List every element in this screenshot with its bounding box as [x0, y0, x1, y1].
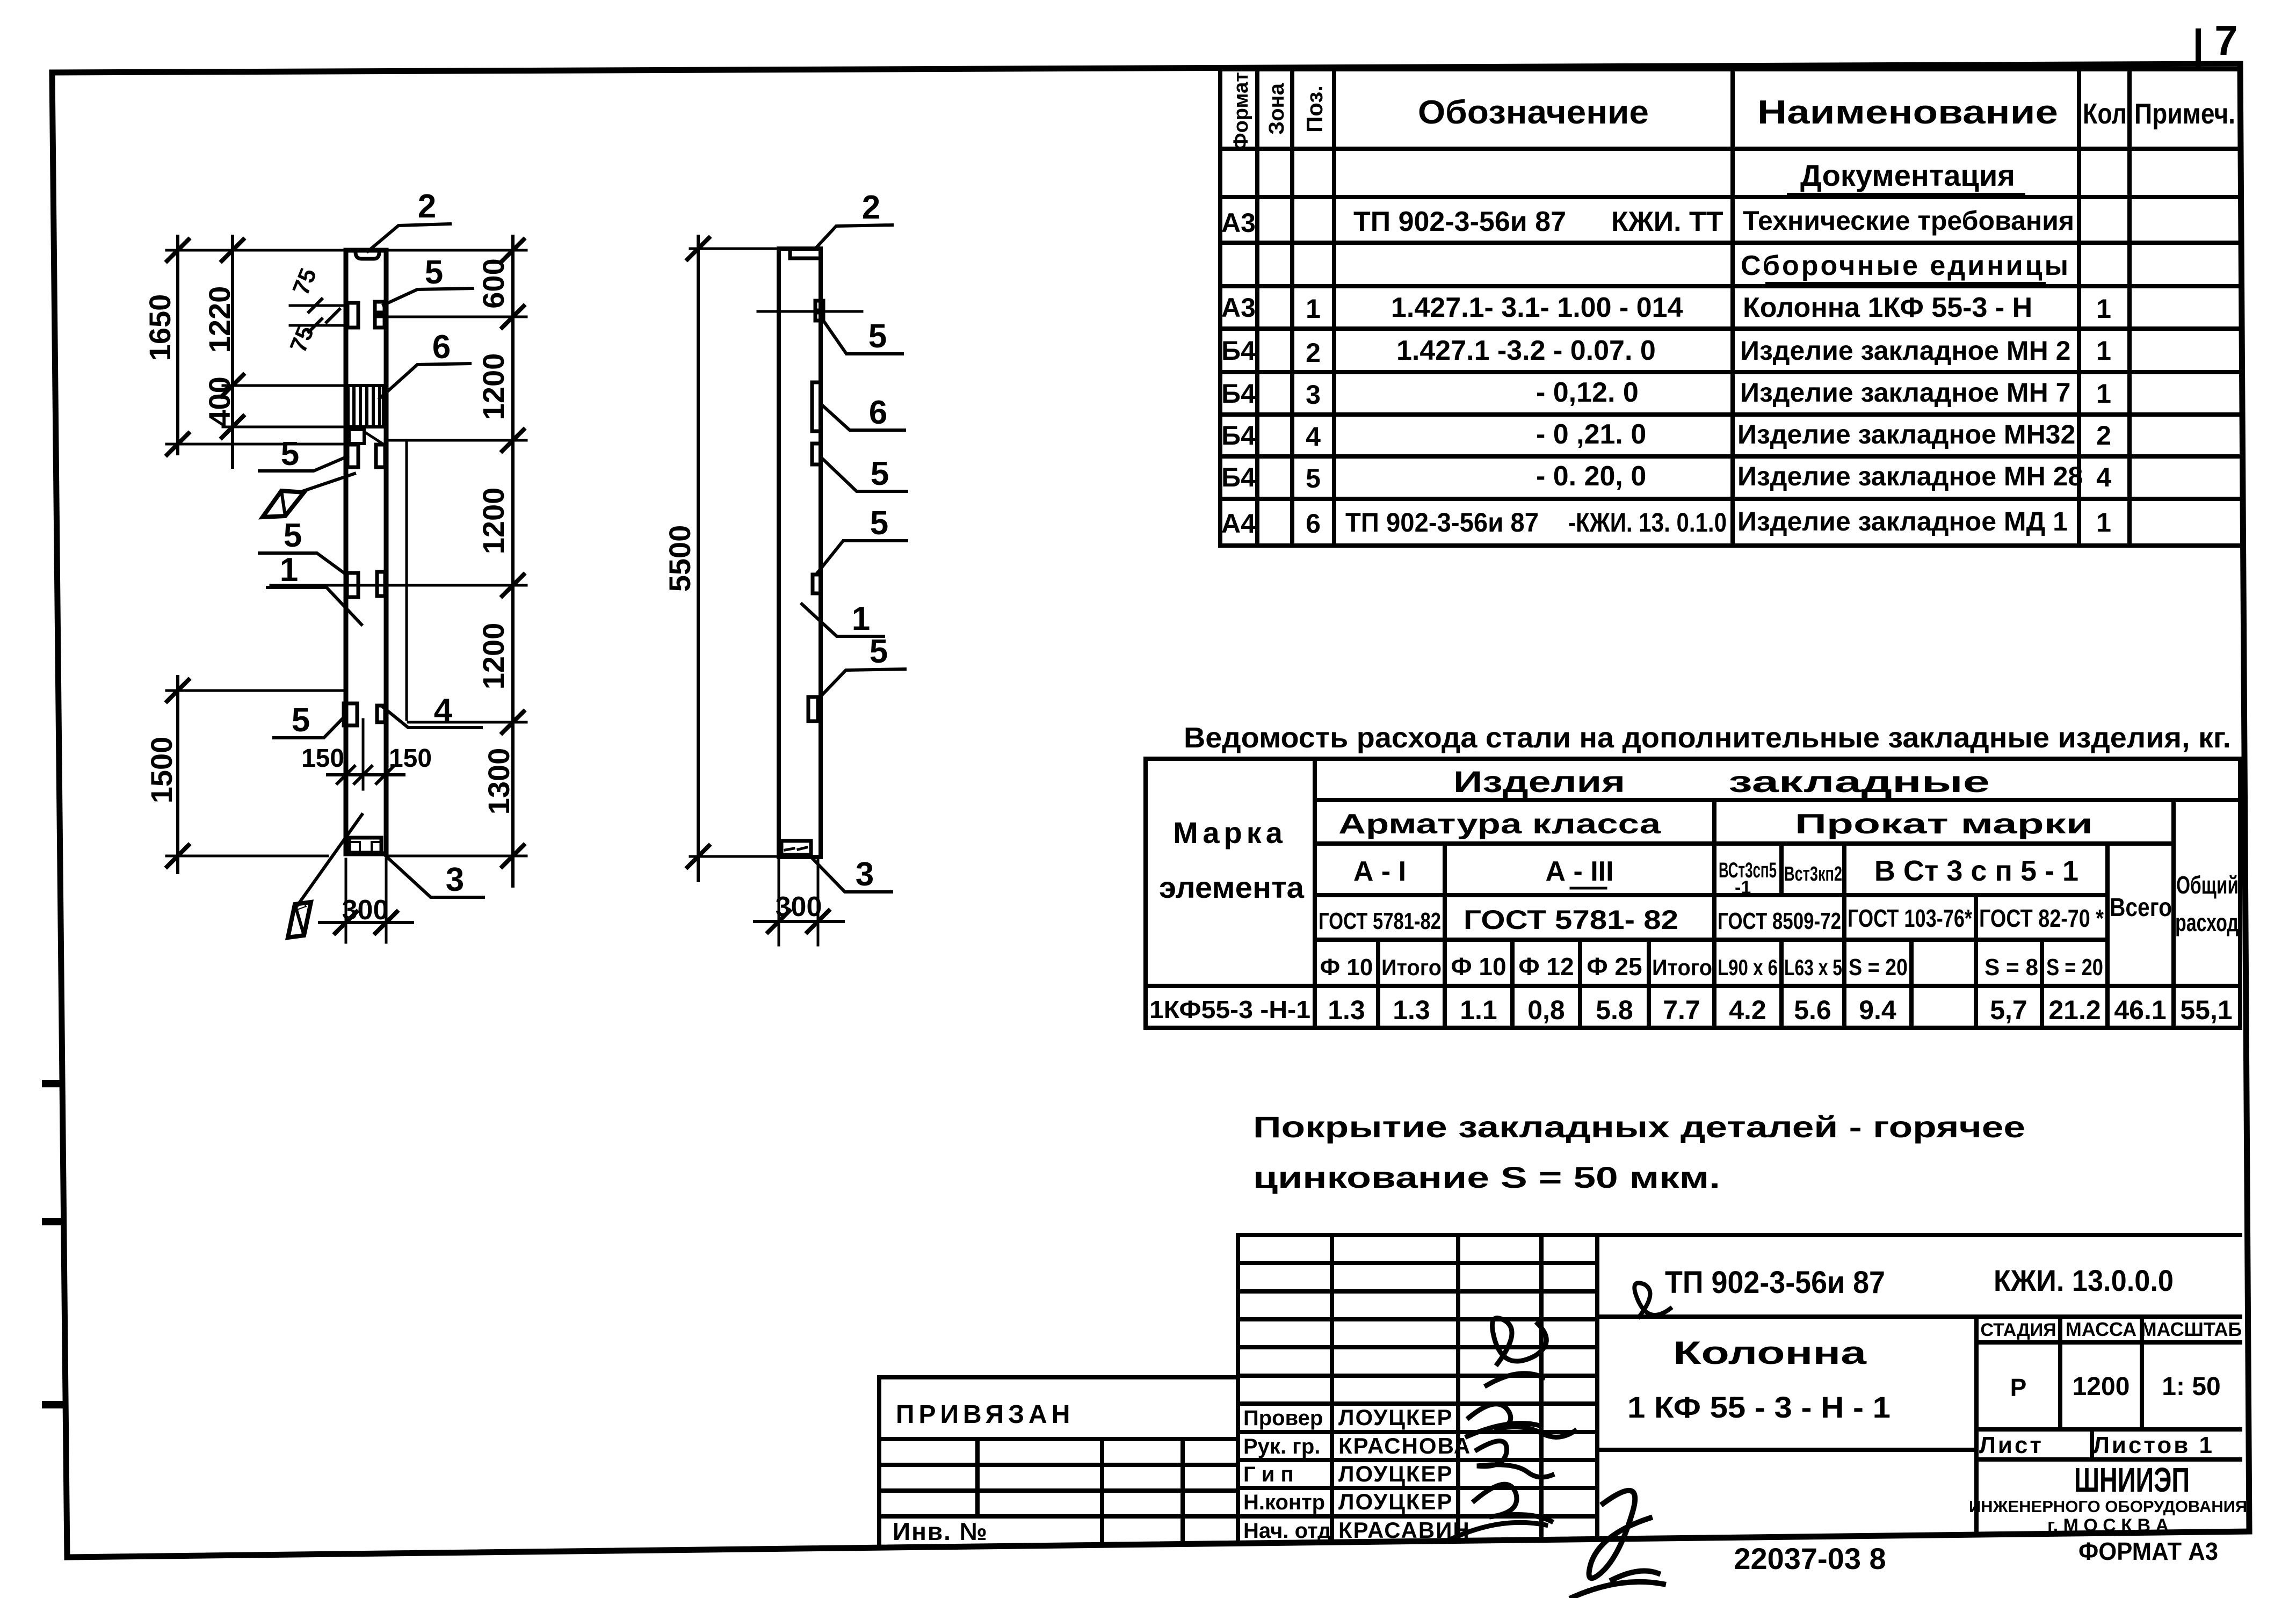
svg-text:СТАДИЯ: СТАДИЯ [1980, 1320, 2056, 1340]
svg-text:5: 5 [292, 702, 310, 739]
svg-text:Вст3кп2: Вст3кп2 [1784, 863, 1842, 885]
view1 leader item 5 (pair3) [259, 553, 347, 575]
svg-text:7: 7 [2214, 17, 2237, 64]
view1 view marker A with arrow [296, 815, 362, 907]
svg-text:5: 5 [868, 318, 887, 355]
svg-text:ЛОУЦКЕР: ЛОУЦКЕР [1338, 1489, 1453, 1514]
svg-text:Ф 10: Ф 10 [1320, 954, 1373, 980]
svg-text:Ф 12: Ф 12 [1518, 953, 1574, 980]
svg-text:S = 20: S = 20 [2046, 954, 2103, 980]
specification table grid [1220, 67, 2240, 71]
svg-text:1: 50: 1: 50 [2162, 1372, 2220, 1401]
svg-text:5500: 5500 [663, 525, 697, 592]
svg-text:Г и п: Г и п [1243, 1463, 1294, 1486]
view1 leader item 4 [405, 443, 408, 720]
svg-text:0,8: 0,8 [1527, 995, 1565, 1025]
svg-text:- 0,12. 0: - 0,12. 0 [1536, 377, 1639, 408]
page frame top border [52, 64, 2240, 72]
svg-text:ТП 902-3-56и 87: ТП 902-3-56и 87 [1345, 507, 1539, 537]
view1 embed pair 1 (item 5) [347, 303, 358, 328]
svg-text:Ф 25: Ф 25 [1587, 953, 1642, 980]
svg-text:Изделия: Изделия [1453, 765, 1625, 798]
view2 embed 4 (item 5) [808, 697, 818, 721]
svg-text:S = 8: S = 8 [1984, 954, 2038, 980]
title block middle signature grid [1238, 1233, 1597, 1237]
svg-text:1.427.1 -3.2 - 0.07. 0: 1.427.1 -3.2 - 0.07. 0 [1396, 335, 1656, 366]
svg-text:55,1: 55,1 [2180, 995, 2232, 1025]
svg-text:элемента: элемента [1159, 870, 1305, 904]
svg-text:Н.контр: Н.контр [1243, 1491, 1325, 1514]
svg-text:7.7: 7.7 [1663, 995, 1700, 1025]
svg-text:1: 1 [2096, 336, 2111, 366]
svg-text:В Ст 3 с п 5 - 1: В Ст 3 с п 5 - 1 [1874, 855, 2078, 887]
svg-text:Р: Р [2010, 1374, 2027, 1401]
svg-text:КРАСНОВА: КРАСНОВА [1338, 1433, 1471, 1458]
svg-text:Б4: Б4 [1221, 336, 1256, 366]
svg-text:21.2: 21.2 [2048, 995, 2101, 1025]
svg-text:Поз.: Поз. [1302, 85, 1327, 133]
view1 leader item 3 [385, 855, 483, 897]
svg-text:75: 75 [288, 265, 322, 299]
svg-text:4: 4 [1306, 422, 1321, 452]
view1 leader item 6 [380, 364, 470, 398]
view2 leader item 3 [811, 857, 892, 892]
svg-text:Нач. отд: Нач. отд [1243, 1519, 1331, 1543]
svg-text:Изделие закладное МД 1: Изделие закладное МД 1 [1737, 506, 2068, 536]
svg-text:МАСШТАБ: МАСШТАБ [2141, 1318, 2242, 1340]
view2 leader item 6 [821, 404, 904, 430]
view1 embed pair 3 (item 5) [347, 573, 358, 597]
view1 hatched zone item 6 [348, 386, 383, 427]
view1 small plate below hatch (item 4) [349, 430, 364, 444]
svg-text:Кол: Кол [2083, 98, 2127, 130]
svg-text:46.1: 46.1 [2114, 995, 2166, 1025]
svg-text:Б4: Б4 [1221, 462, 1256, 492]
svg-text:КЖИ. 13.0.0.0: КЖИ. 13.0.0.0 [1994, 1263, 2174, 1297]
svg-text:5: 5 [284, 517, 302, 554]
view1 dim chain 1500 [176, 677, 179, 873]
svg-text:Марка: Марка [1173, 816, 1287, 849]
column view 1: body outline [346, 250, 386, 854]
view1 dim chain 1650 [176, 236, 179, 454]
svg-text:А3: А3 [1221, 293, 1256, 323]
svg-text:Ведомость расхода стали на: Ведомость расхода стали на дополнительны… [1184, 722, 2231, 754]
svg-text:Арматура класса: Арматура класса [1338, 809, 1661, 840]
svg-text:ГОСТ 8509-72: ГОСТ 8509-72 [1718, 908, 1841, 934]
svg-text:300: 300 [342, 895, 389, 926]
svg-text:Изделие закладное МН 28: Изделие закладное МН 28 [1737, 461, 2083, 491]
svg-text:ИНЖЕНЕРНОГО ОБОРУДОВАНИЯ: ИНЖЕНЕРНОГО ОБОРУДОВАНИЯ [1969, 1497, 2247, 1516]
fold tick left 1 [46, 1080, 61, 1087]
svg-text:1.3: 1.3 [1393, 995, 1430, 1025]
view1 leader item 1 [267, 587, 361, 624]
svg-text:4.2: 4.2 [1729, 995, 1766, 1025]
view1 dims 75 75 [290, 304, 347, 307]
svg-text:3: 3 [1306, 380, 1321, 410]
svg-text:L63 x 5: L63 x 5 [1784, 955, 1842, 980]
svg-text:600: 600 [476, 258, 510, 308]
svg-text:Всего: Всего [2110, 894, 2172, 922]
view2 extension line at 600 level [758, 310, 862, 313]
svg-text:Документация: Документация [1800, 158, 2015, 192]
svg-text:расход: расход [2175, 909, 2239, 936]
svg-text:2: 2 [2096, 420, 2111, 451]
title block left section outline [879, 1375, 1238, 1379]
svg-text:1 КФ 55 - 3 - Н - 1: 1 КФ 55 - 3 - Н - 1 [1627, 1390, 1891, 1424]
view1 bottom embed (item 3) [349, 838, 381, 853]
svg-text:1КФ55-3 -Н-1: 1КФ55-3 -Н-1 [1149, 996, 1310, 1023]
page number tick [2196, 31, 2201, 65]
svg-text:1200: 1200 [476, 353, 510, 420]
view1 dim 300 [345, 859, 347, 942]
svg-text:1: 1 [852, 600, 870, 637]
svg-text:6: 6 [432, 329, 451, 366]
svg-text:5: 5 [281, 435, 299, 473]
signature squiggles [1487, 1318, 1546, 1385]
svg-text:Рук. гр.: Рук. гр. [1243, 1435, 1320, 1458]
page frame left border [52, 72, 67, 1557]
svg-text:5: 5 [870, 633, 888, 670]
view2 embed 2 (item 5) [812, 444, 821, 464]
svg-text:ТП 902-3-56и 87: ТП 902-3-56и 87 [1353, 206, 1566, 237]
column view 2: body outline [779, 249, 821, 857]
svg-text:ФОРМАТ А3: ФОРМАТ А3 [2078, 1537, 2218, 1565]
svg-text:закладные: закладные [1728, 765, 1990, 798]
svg-text:2: 2 [418, 188, 436, 225]
svg-text:ТП 902-3-56и 87: ТП 902-3-56и 87 [1665, 1265, 1885, 1300]
fold tick left 3 [46, 1401, 64, 1408]
svg-text:2: 2 [862, 189, 880, 226]
svg-text:Формат: Формат [1230, 72, 1252, 150]
svg-text:А - III: А - III [1545, 856, 1613, 887]
view1 right dim chain 600/1200/1200/1200/1300 [511, 236, 515, 886]
svg-text:Изделие закладное МН 2: Изделие закладное МН 2 [1740, 336, 2070, 366]
view1 leader item 5 (pair4) [274, 717, 344, 738]
svg-text:1.1: 1.1 [1460, 995, 1497, 1025]
svg-text:1500: 1500 [144, 737, 178, 804]
page frame right border [2240, 64, 2249, 1531]
svg-text:ГОСТ 5781- 82: ГОСТ 5781- 82 [1464, 905, 1678, 935]
svg-text:ГОСТ 82-70 *: ГОСТ 82-70 * [1979, 904, 2104, 932]
svg-text:5: 5 [425, 254, 443, 291]
svg-text:Инв. №: Инв. № [893, 1517, 988, 1545]
view2 embed 3 (item 5) [813, 575, 821, 593]
svg-text:Общий: Общий [2176, 871, 2239, 899]
svg-text:Итого: Итого [1652, 955, 1712, 980]
svg-text:Изделие закладное МН32: Изделие закладное МН32 [1737, 419, 2075, 449]
svg-text:А3: А3 [1221, 208, 1256, 238]
svg-text:6: 6 [869, 394, 887, 431]
view2 embed item 6 tall plate [812, 382, 821, 431]
svg-text:L90 x 6: L90 x 6 [1718, 955, 1778, 980]
svg-text:Колонна: Колонна [1673, 1335, 1867, 1371]
view2 leader item 1 [802, 604, 883, 636]
svg-text:3: 3 [856, 856, 874, 893]
view1 dim chain 1220 / 400 [231, 236, 234, 467]
title block right section [1597, 1233, 2240, 1237]
svg-text:Сборочные единицы: Сборочные единицы [1741, 250, 2070, 281]
svg-text:1200: 1200 [2073, 1372, 2130, 1401]
svg-text:2: 2 [1306, 338, 1321, 368]
svg-text:-КЖИ. 13. 0.1.0: -КЖИ. 13. 0.1.0 [1568, 507, 1727, 537]
view2 bottom embed (item 3) [781, 841, 811, 855]
steel table grid [1146, 757, 2240, 761]
svg-text:А4: А4 [1221, 509, 1256, 539]
view1 dim 150 150 [328, 773, 404, 776]
svg-text:4: 4 [2096, 462, 2111, 492]
view2 leader item 5 (embed1) [823, 321, 902, 354]
svg-text:1.3: 1.3 [1328, 995, 1365, 1025]
svg-text:г. М О С К В А: г. М О С К В А [2047, 1515, 2169, 1536]
view1 embed pair 2 (item 5) [347, 445, 358, 467]
svg-text:5: 5 [870, 505, 888, 542]
svg-text:1220: 1220 [202, 286, 236, 353]
svg-text:Примеч.: Примеч. [2134, 98, 2235, 130]
svg-text:1650: 1650 [143, 294, 177, 361]
svg-text:5.6: 5.6 [1794, 995, 1831, 1025]
svg-text:1: 1 [2096, 507, 2111, 537]
view1 top embed MH2 [356, 252, 379, 259]
svg-text:3: 3 [446, 861, 464, 898]
svg-text:1.427.1- 3.1- 1.00 - 014: 1.427.1- 3.1- 1.00 - 014 [1391, 292, 1683, 323]
svg-text:Покрытие закладных деталей -: Покрытие закладных деталей - горячее [1253, 1110, 2025, 1144]
view1 leader item 5 (pair2) [259, 456, 347, 471]
svg-text:-1: -1 [1735, 877, 1751, 898]
svg-text:Колонна 1КФ 55-3 - Н: Колонна 1КФ 55-3 - Н [1743, 292, 2032, 323]
view1 view marker H [301, 474, 354, 492]
svg-text:1: 1 [2096, 294, 2111, 324]
svg-text:Изделие закладное МН 7: Изделие закладное МН 7 [1740, 377, 2070, 408]
svg-text:ЛОУЦКЕР: ЛОУЦКЕР [1338, 1461, 1453, 1486]
svg-text:9.4: 9.4 [1859, 995, 1896, 1025]
svg-text:А - I: А - I [1353, 856, 1406, 887]
svg-text:Б4: Б4 [1221, 420, 1256, 451]
svg-text:Ф 10: Ф 10 [1451, 953, 1506, 980]
svg-text:Б4: Б4 [1221, 379, 1256, 409]
svg-text:300: 300 [776, 891, 822, 923]
view1 leader item 2 [368, 224, 450, 251]
view2 leader item 2 [815, 225, 892, 249]
svg-text:150: 150 [389, 744, 432, 773]
svg-text:Технические требования: Технические требования [1743, 206, 2074, 236]
svg-text:- 0. 20, 0: - 0. 20, 0 [1536, 461, 1646, 492]
svg-text:1: 1 [280, 551, 298, 589]
view2 leader item 5 (embed2) [821, 457, 907, 491]
view1 leader item 5 top [383, 288, 473, 305]
svg-text:5: 5 [871, 455, 889, 492]
svg-text:Листов 1: Листов 1 [2093, 1432, 2214, 1458]
view2 embed 1 (item 5) [815, 301, 823, 310]
svg-text:6: 6 [1306, 509, 1321, 539]
view2 leader item 5 (embed4) [821, 669, 905, 696]
svg-text:Зона: Зона [1265, 83, 1288, 135]
svg-text:ЛОУЦКЕР: ЛОУЦКЕР [1338, 1405, 1453, 1430]
svg-text:5,7: 5,7 [1990, 995, 2027, 1025]
page frame bottom border [67, 1531, 2249, 1557]
svg-text:1: 1 [1306, 294, 1321, 324]
svg-text:1: 1 [2096, 379, 2111, 409]
svg-text:ГОСТ 5781-82: ГОСТ 5781-82 [1319, 908, 1441, 934]
svg-text:Обозначение: Обозначение [1418, 94, 1649, 131]
svg-text:22037-03 8: 22037-03 8 [1734, 1542, 1886, 1575]
svg-text:1200: 1200 [476, 623, 510, 690]
view2 top notch MH2 [790, 250, 820, 258]
svg-text:400: 400 [202, 376, 236, 426]
svg-text:цинкование S = 50 мкм.: цинкование S = 50 мкм. [1253, 1160, 1720, 1194]
svg-text:Лист: Лист [1979, 1432, 2044, 1458]
view2 leader item 5 (embed3) [817, 541, 907, 573]
svg-text:МАССА: МАССА [2066, 1318, 2136, 1340]
svg-text:КЖИ. ТТ: КЖИ. ТТ [1611, 206, 1723, 237]
svg-text:Прокат марки: Прокат марки [1795, 809, 2093, 840]
svg-text:ГОСТ 103-76*: ГОСТ 103-76* [1848, 904, 1972, 932]
svg-text:150: 150 [301, 744, 344, 773]
svg-text:5: 5 [1306, 463, 1321, 493]
svg-text:- 0 ,21. 0: - 0 ,21. 0 [1536, 419, 1646, 450]
view2 dim 5500 [697, 236, 700, 881]
svg-text:1200: 1200 [476, 488, 510, 555]
svg-text:Итого: Итого [1381, 955, 1442, 980]
svg-text:5.8: 5.8 [1596, 995, 1633, 1025]
svg-text:ПРИВЯЗАН: ПРИВЯЗАН [896, 1400, 1074, 1429]
svg-text:ШНИИЭП: ШНИИЭП [2074, 1461, 2190, 1499]
svg-text:Провер: Провер [1243, 1406, 1323, 1430]
view2 dim 300 [778, 859, 780, 945]
svg-text:1300: 1300 [482, 748, 516, 815]
fold tick left 2 [46, 1218, 62, 1225]
view1 embed pair 4 (item 5) [344, 703, 357, 725]
svg-text:4: 4 [434, 692, 453, 729]
svg-text:Наименование: Наименование [1757, 94, 2058, 131]
svg-text:S = 20: S = 20 [1849, 954, 1908, 980]
